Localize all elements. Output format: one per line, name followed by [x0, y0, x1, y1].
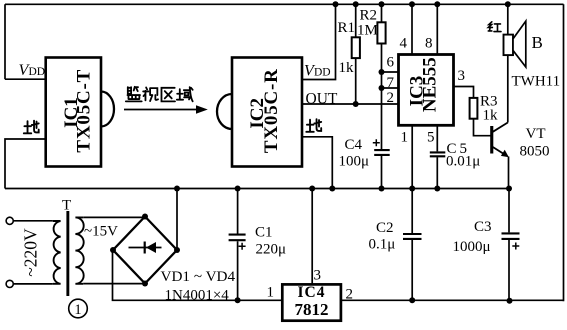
svg-text:C3: C3 [474, 219, 492, 235]
svg-text:R2: R2 [360, 8, 378, 24]
svg-text:T: T [62, 198, 71, 214]
svg-text:2: 2 [387, 90, 395, 106]
svg-text:VT: VT [526, 126, 546, 142]
svg-text:NE555: NE555 [419, 57, 440, 112]
svg-text:0.1μ: 0.1μ [369, 237, 396, 253]
svg-text:C2: C2 [376, 220, 394, 236]
svg-text:6: 6 [387, 55, 395, 71]
svg-text:DD: DD [314, 67, 331, 79]
svg-text:7812: 7812 [295, 300, 329, 319]
svg-text:0.01μ: 0.01μ [446, 154, 480, 170]
svg-text:B: B [532, 33, 543, 52]
svg-text:TWH11: TWH11 [512, 74, 561, 90]
svg-text:OUT: OUT [306, 91, 338, 108]
svg-text:220μ: 220μ [256, 242, 287, 258]
svg-text:C1: C1 [255, 225, 273, 241]
svg-text:5: 5 [427, 130, 435, 146]
svg-text:1k: 1k [339, 60, 355, 76]
svg-text:1: 1 [74, 302, 81, 318]
svg-text:1: 1 [401, 130, 409, 146]
svg-text:1000μ: 1000μ [453, 239, 491, 255]
svg-text:3: 3 [458, 68, 466, 84]
svg-text:8050: 8050 [520, 144, 550, 160]
svg-text:R1: R1 [338, 20, 356, 36]
svg-text:1k: 1k [483, 108, 499, 124]
svg-text:TX05C-T: TX05C-T [73, 69, 94, 153]
svg-text:DD: DD [29, 66, 46, 78]
svg-text:C4: C4 [345, 137, 363, 153]
svg-text:~220V: ~220V [21, 228, 41, 277]
svg-text:2: 2 [346, 287, 354, 303]
svg-text:3: 3 [314, 268, 322, 284]
svg-text:1N4001×4: 1N4001×4 [165, 288, 230, 304]
svg-text:8: 8 [425, 36, 433, 52]
svg-text:IC4: IC4 [298, 284, 326, 301]
svg-text:~15V: ~15V [84, 224, 118, 240]
svg-text:100μ: 100μ [339, 154, 370, 170]
svg-text:1: 1 [267, 285, 275, 301]
svg-text:4: 4 [400, 36, 408, 52]
svg-text:TX05C-R: TX05C-R [261, 68, 282, 153]
svg-text:VD1 ~ VD4: VD1 ~ VD4 [161, 268, 236, 285]
svg-text:7: 7 [387, 75, 395, 91]
svg-text:1M: 1M [357, 23, 378, 39]
